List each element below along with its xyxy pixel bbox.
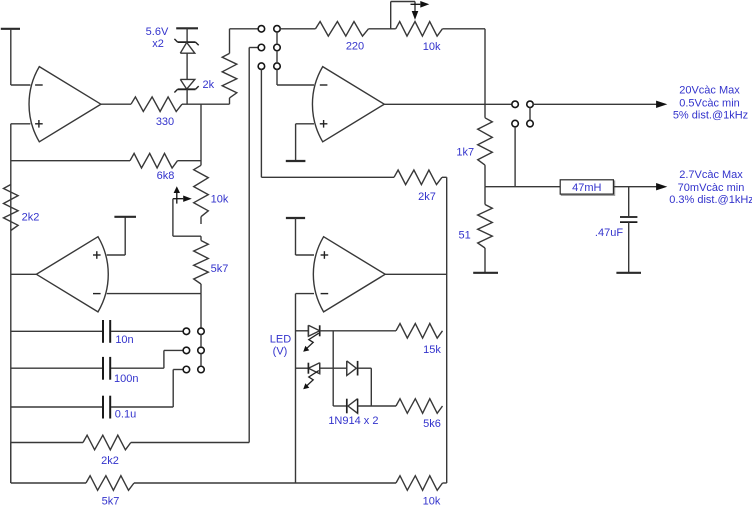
wire U3 output bbox=[11, 273, 37, 275]
label 20Vcac Max bbox=[679, 85, 740, 97]
svg-text:6k8: 6k8 bbox=[157, 170, 175, 182]
label 100n bbox=[114, 373, 138, 385]
wire 10n row bbox=[11, 330, 102, 332]
label 5k6 bbox=[423, 418, 441, 430]
diode D6 1N914 bbox=[347, 399, 358, 414]
svg-text:47mH: 47mH bbox=[572, 182, 601, 194]
resistor 2k vertical bbox=[222, 29, 237, 104]
node rail U4- vertical bbox=[295, 294, 297, 483]
wire LED2 to D5 bbox=[320, 367, 347, 369]
svg-text:2.7Vcàc Max: 2.7Vcàc Max bbox=[679, 169, 743, 181]
LED D4 bbox=[303, 363, 320, 390]
wire U1 non-inverting input bbox=[11, 123, 31, 125]
op-amp U4 bbox=[313, 237, 385, 312]
node rail from switch S1 bbox=[249, 48, 258, 443]
label 5% dist bbox=[673, 110, 748, 122]
switch contacts S2 column 1 bbox=[183, 328, 190, 373]
node rail B (left vertical) bbox=[10, 124, 12, 483]
wire cap to ground bbox=[628, 222, 630, 272]
label 0.3% dist bbox=[669, 194, 752, 206]
wire S2 col2 links bbox=[200, 334, 202, 366]
resistor 15k bbox=[396, 324, 443, 339]
capacitor .47uF bbox=[620, 217, 637, 222]
wire S3 row2 down bbox=[514, 127, 516, 187]
wire 6k8 to rail C bbox=[178, 160, 202, 162]
wire LED2 row left bbox=[296, 367, 309, 369]
wire S1 row3 col1 down bbox=[260, 69, 262, 177]
wire U4 + input bbox=[296, 218, 315, 255]
resistor 2k2 (left vertical) bbox=[4, 185, 19, 231]
switch contacts S2 column 2 bbox=[198, 328, 205, 373]
svg-text:2k2: 2k2 bbox=[101, 455, 119, 467]
svg-text:5% dist.@1kHz: 5% dist.@1kHz bbox=[673, 110, 748, 122]
pot bracket and wiper arrow (top) bbox=[391, 1, 430, 29]
wire 47mH row bbox=[485, 186, 560, 188]
resistor 2k2 (bottom) bbox=[83, 435, 131, 450]
wire 2k7 row bbox=[261, 176, 394, 178]
label 1N914 x 2 bbox=[328, 415, 378, 427]
capacitor 100n bbox=[103, 357, 110, 380]
diode D5 1N914 bbox=[347, 361, 358, 376]
svg-text:5k7: 5k7 bbox=[102, 495, 120, 507]
svg-text:20Vcàc Max: 20Vcàc Max bbox=[679, 85, 740, 97]
wire 2k top to switch bbox=[230, 28, 259, 30]
svg-text:10k: 10k bbox=[211, 194, 229, 206]
switch contacts S1 column 1 bbox=[258, 26, 265, 70]
arrowhead output 2 bbox=[656, 183, 667, 190]
switch contacts S1 column 2 bbox=[274, 26, 281, 70]
svg-text:x2: x2 bbox=[152, 38, 164, 50]
ground (U2) bbox=[286, 160, 306, 162]
label 51 bbox=[458, 230, 470, 242]
wire op-amp U1 inverting input bbox=[11, 84, 31, 86]
label 10n bbox=[115, 334, 133, 346]
svg-text:5k7: 5k7 bbox=[211, 263, 229, 275]
wire LED1 row left bbox=[296, 330, 309, 332]
wire LED1 to 15k bbox=[320, 330, 396, 332]
ground (cap) bbox=[616, 272, 641, 274]
label 2k2 bottom bbox=[101, 455, 119, 467]
op-amp U3 (pointing left) bbox=[36, 237, 108, 312]
label .47uF bbox=[595, 227, 623, 239]
label 2.7Vcac Max bbox=[679, 169, 743, 181]
svg-text:51: 51 bbox=[458, 230, 470, 242]
wire D6 to 5k6 bbox=[358, 405, 396, 407]
node rail C lower bbox=[200, 294, 202, 329]
potentiometer 10k (left) bbox=[194, 165, 209, 224]
label (V) bbox=[273, 345, 288, 357]
svg-text:2k7: 2k7 bbox=[418, 191, 436, 203]
svg-text:2k: 2k bbox=[202, 79, 214, 91]
wire 5k7 row bbox=[11, 443, 86, 484]
label 6k8 bbox=[157, 170, 175, 182]
label 330 bbox=[156, 116, 174, 128]
label 10k top pot bbox=[423, 41, 441, 53]
svg-text:(V): (V) bbox=[273, 345, 288, 357]
svg-text:1N914 x 2: 1N914 x 2 bbox=[328, 415, 378, 427]
svg-text:100n: 100n bbox=[114, 373, 138, 385]
capacitor 10n bbox=[103, 320, 110, 343]
svg-text:10k: 10k bbox=[423, 495, 441, 507]
wire U2 output bbox=[384, 103, 512, 105]
svg-text:.47uF: .47uF bbox=[595, 227, 623, 239]
wire 10n to switch bbox=[111, 330, 183, 332]
svg-text:15k: 15k bbox=[423, 344, 441, 356]
svg-text:10n: 10n bbox=[115, 334, 133, 346]
resistor 5k7 (bottom) bbox=[86, 476, 134, 491]
wire U4 output bbox=[385, 273, 447, 275]
label 47mH bbox=[572, 182, 601, 194]
label 0.5Vcac min bbox=[679, 98, 740, 110]
resistor 6k8 bbox=[130, 153, 178, 168]
label 10k left pot bbox=[211, 194, 229, 206]
wire 5k7 to 10k bbox=[134, 482, 396, 484]
resistor 51 bbox=[478, 187, 493, 272]
wire U3 + to T bbox=[107, 217, 125, 255]
label 5k7 bottom bbox=[102, 495, 120, 507]
switch contacts S3 bbox=[512, 101, 533, 127]
svg-text:0.3% dist.@1kHz: 0.3% dist.@1kHz bbox=[669, 194, 752, 206]
pot wiper bracket bbox=[173, 199, 201, 237]
svg-text:1k7: 1k7 bbox=[456, 147, 474, 159]
svg-text:330: 330 bbox=[156, 116, 174, 128]
label 2k2 left bbox=[22, 212, 40, 224]
LED D3 bbox=[303, 325, 320, 352]
label 5k7 left bbox=[211, 263, 229, 275]
wire D5 to corner bbox=[358, 368, 372, 406]
capacitor 0.1u bbox=[103, 396, 110, 419]
svg-text:5.6V: 5.6V bbox=[146, 26, 169, 38]
wire 0.1u row bbox=[11, 406, 102, 408]
svg-text:0.1u: 0.1u bbox=[115, 408, 136, 420]
wire S1 col2 links bbox=[276, 32, 278, 63]
svg-text:2k2: 2k2 bbox=[22, 212, 40, 224]
potentiometer 10k (top) bbox=[396, 22, 443, 37]
wire 2k2 row bbox=[11, 442, 83, 444]
wire 100n row bbox=[11, 367, 102, 369]
wire D6 row left bbox=[333, 405, 347, 407]
ground (51) bbox=[473, 272, 498, 274]
resistor 10k (bottom) bbox=[396, 476, 443, 491]
wire 6k8 row bbox=[11, 160, 130, 162]
inductor 47mH box bbox=[560, 180, 614, 196]
node rail D vertical bbox=[446, 177, 448, 483]
svg-text:5k6: 5k6 bbox=[423, 418, 441, 430]
wire 2k2 to rail bbox=[131, 442, 249, 444]
power rail T symbol (U3) bbox=[114, 216, 136, 218]
resistor 220 bbox=[316, 22, 369, 37]
resistor 5k6 bbox=[396, 399, 443, 414]
wire S1 row1 col2 to 220 bbox=[280, 28, 315, 30]
resistor 5k7 (left vertical) bbox=[194, 236, 209, 293]
wire U1 output bbox=[101, 103, 131, 105]
wire zener to junction bbox=[186, 89, 188, 104]
wire U4 - input bbox=[296, 293, 315, 295]
svg-text:0.5Vcàc min: 0.5Vcàc min bbox=[679, 98, 740, 110]
node rail C vertical bbox=[200, 104, 202, 165]
node junction LED1/D6 bbox=[332, 331, 334, 406]
label 70mVcac min bbox=[678, 182, 745, 194]
svg-text:220: 220 bbox=[346, 40, 364, 52]
resistor 330 bbox=[131, 97, 182, 112]
svg-text:70mVcàc min: 70mVcàc min bbox=[678, 182, 745, 194]
svg-text:LED: LED bbox=[270, 333, 291, 345]
label 220 bbox=[346, 40, 364, 52]
wire 10k to rail D bbox=[443, 482, 447, 484]
wire 330 to junction bbox=[182, 103, 230, 105]
wire 0.1u to switch bbox=[111, 370, 183, 408]
power rail T symbol (zener chain) bbox=[176, 28, 198, 42]
op-amp U1 bbox=[29, 67, 101, 142]
power rail T symbol (U4) bbox=[286, 217, 305, 219]
power rail T symbol (top left) bbox=[1, 29, 20, 85]
wire output arrow 1 bbox=[533, 103, 657, 105]
label 2k7 bbox=[418, 191, 436, 203]
op-amp U2 bbox=[312, 67, 384, 142]
wire S3 col2 link bbox=[529, 107, 531, 120]
wire U3 - row bbox=[107, 293, 201, 295]
wire U2 + input to ground bbox=[296, 124, 314, 161]
zener diode D1 5.6V bbox=[174, 39, 198, 53]
resistor 1k7 bbox=[478, 104, 493, 186]
wire pot to rail E bbox=[442, 29, 485, 105]
label 5.6V bbox=[146, 26, 169, 38]
wire 100n to switch bbox=[111, 350, 183, 368]
pot wiper arrow bbox=[173, 186, 192, 203]
resistor 2k7 bbox=[394, 170, 442, 185]
label 10k bottom bbox=[423, 495, 441, 507]
label 15k bbox=[423, 344, 441, 356]
label 1k7 bbox=[456, 147, 474, 159]
wire to capacitor .47uF bbox=[628, 187, 630, 216]
label x2 bbox=[152, 38, 164, 50]
wire between zeners bbox=[186, 53, 188, 79]
zener diode D2 5.6V bbox=[174, 79, 198, 92]
arrowhead output 1 bbox=[656, 101, 667, 108]
wire 47mH to arrow bbox=[613, 186, 657, 188]
label 0.1u bbox=[115, 408, 136, 420]
label LED bbox=[270, 333, 291, 345]
wire 2k7 to rail D bbox=[442, 176, 447, 178]
wire S1 row3 col2 to U2 bbox=[277, 69, 314, 85]
svg-text:10k: 10k bbox=[423, 41, 441, 53]
label 2k bbox=[202, 79, 214, 91]
wire 220 to pot bbox=[369, 28, 396, 30]
